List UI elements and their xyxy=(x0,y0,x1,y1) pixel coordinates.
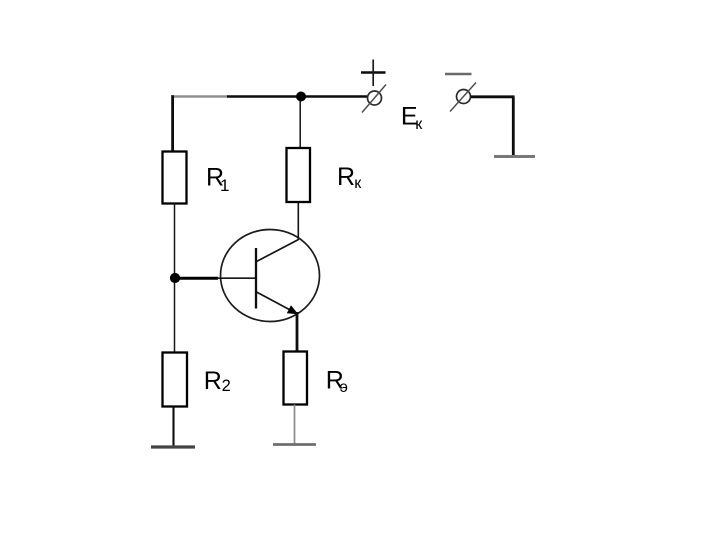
transistor base bar xyxy=(255,248,257,309)
wire minus terminal to corner xyxy=(471,95,515,98)
wire base node to transistor xyxy=(175,277,218,280)
plus sign xyxy=(361,71,386,74)
ground bar minus terminal xyxy=(494,155,535,158)
wire RE to ground xyxy=(294,405,296,445)
wire top rail gray segment xyxy=(172,95,229,98)
transistor emitter arrowhead xyxy=(287,305,298,314)
wire R2 to ground xyxy=(172,407,174,447)
wire emitter down to RE xyxy=(296,312,299,352)
svg-text:к: к xyxy=(354,175,362,192)
resistor RE xyxy=(284,352,308,405)
ground bar under R2 xyxy=(151,445,195,448)
transistor collector line xyxy=(257,240,299,262)
transistor emitter line xyxy=(257,292,294,312)
resistor R2 xyxy=(163,353,188,407)
transistor VT1 body circle xyxy=(221,230,320,322)
wire top node down to RK xyxy=(299,101,301,148)
terminal minus circle xyxy=(457,90,471,104)
wire top rail black segment xyxy=(227,95,367,98)
terminal plus circle xyxy=(368,91,382,105)
wire RK to collector xyxy=(297,203,299,241)
terminal plus slash xyxy=(362,85,386,113)
wire corner down xyxy=(512,97,515,156)
svg-text:R: R xyxy=(204,367,222,395)
svg-text:2: 2 xyxy=(222,377,231,395)
resistor R1 xyxy=(163,152,187,204)
node junction top xyxy=(296,92,306,102)
svg-text:R: R xyxy=(337,163,355,191)
node base junction xyxy=(170,273,180,283)
wire base node down to R2 xyxy=(174,282,176,352)
resistor RK xyxy=(287,148,311,202)
wire left drop to R1 xyxy=(171,95,174,152)
ground bar under RE xyxy=(273,443,316,446)
transistor base lead xyxy=(217,277,255,279)
terminal minus slash xyxy=(450,83,476,112)
svg-text:э: э xyxy=(340,379,348,396)
wire R1 to base node xyxy=(174,203,176,274)
svg-text:к: к xyxy=(415,116,423,133)
minus sign xyxy=(445,73,472,76)
svg-text:1: 1 xyxy=(220,176,229,195)
